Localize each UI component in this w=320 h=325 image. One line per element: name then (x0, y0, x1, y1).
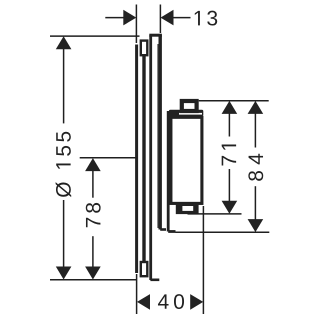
arrow 84 up (248, 101, 264, 114)
plate rim cup bottom (141, 262, 148, 276)
arrow 155 down (56, 267, 72, 280)
dim 155 line lower (63, 200, 65, 268)
cartridge body box (171, 117, 202, 203)
label 40 (158, 294, 184, 309)
cartridge outer wall foot (168, 230, 175, 233)
ext line plate top (50, 35, 140, 37)
cartridge knob (182, 101, 197, 111)
sleeve bottom foot (150, 278, 159, 281)
arrow 84 down (248, 219, 264, 232)
cartridge bottom tab (176, 205, 199, 215)
arrow 78 down (85, 267, 101, 280)
arrow 78 up (85, 158, 101, 171)
dim 13 tail left (105, 17, 124, 19)
plate front face (135, 45, 138, 274)
plate rim cup top (141, 41, 148, 56)
ext line 13 left (135, 5, 137, 44)
ext line 71 bottom (188, 213, 242, 215)
label 71 (222, 145, 236, 166)
dim 84 line lower (254, 186, 256, 221)
ext line knob top right (199, 100, 269, 102)
ext line 40 right (202, 206, 204, 314)
sleeve top band (149, 34, 162, 37)
label diameter 155 (56, 132, 72, 197)
arrow 71 up (222, 101, 238, 114)
arrow 13 right (161, 10, 174, 26)
label 13 (195, 11, 217, 26)
dim 155 line upper (63, 48, 65, 124)
dim 13 tail right (173, 17, 191, 19)
cartridge bottom tab notch (182, 206, 193, 211)
arrow 13 left (123, 10, 136, 26)
plate rim stem (142, 56, 145, 262)
ext line 78 top (80, 157, 138, 159)
label 78 (86, 203, 101, 227)
sleeve inner edge line (157, 44, 159, 228)
sleeve right wall (158, 35, 161, 229)
cartridge flange slit (179, 113, 202, 115)
cartridge flange (169, 110, 203, 116)
dim 71 line lower (228, 169, 230, 203)
ext line plate bottom (50, 279, 137, 281)
ext line 13 right (159, 5, 161, 34)
sleeve right wall foot (160, 228, 166, 231)
arrow 155 up (56, 36, 72, 49)
dim 84 line upper (254, 112, 256, 147)
ext line 40 left (136, 274, 138, 314)
ext line 84 bottom (176, 231, 270, 233)
dim 71 line upper (228, 112, 230, 136)
dim 78 line lower (92, 236, 94, 268)
label 84 (248, 154, 263, 181)
sleeve left wall (149, 35, 152, 280)
arrow 71 down (222, 201, 238, 214)
dim 78 line upper (92, 170, 94, 198)
arrow 40 right (190, 294, 203, 310)
arrow 40 left (137, 294, 150, 310)
cartridge outer wall (167, 111, 170, 232)
